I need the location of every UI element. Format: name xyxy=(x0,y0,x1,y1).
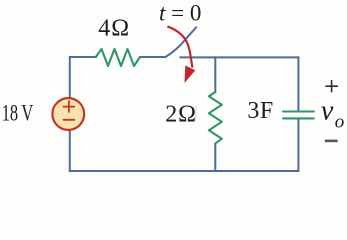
svg-text:18 V: 18 V xyxy=(2,101,34,126)
svg-text:t = 0: t = 0 xyxy=(159,0,201,25)
svg-text:o: o xyxy=(335,112,345,133)
svg-text:v: v xyxy=(321,96,334,127)
svg-text:3F: 3F xyxy=(247,98,273,124)
svg-text:4Ω: 4Ω xyxy=(98,16,130,42)
svg-text:2Ω: 2Ω xyxy=(165,102,196,128)
